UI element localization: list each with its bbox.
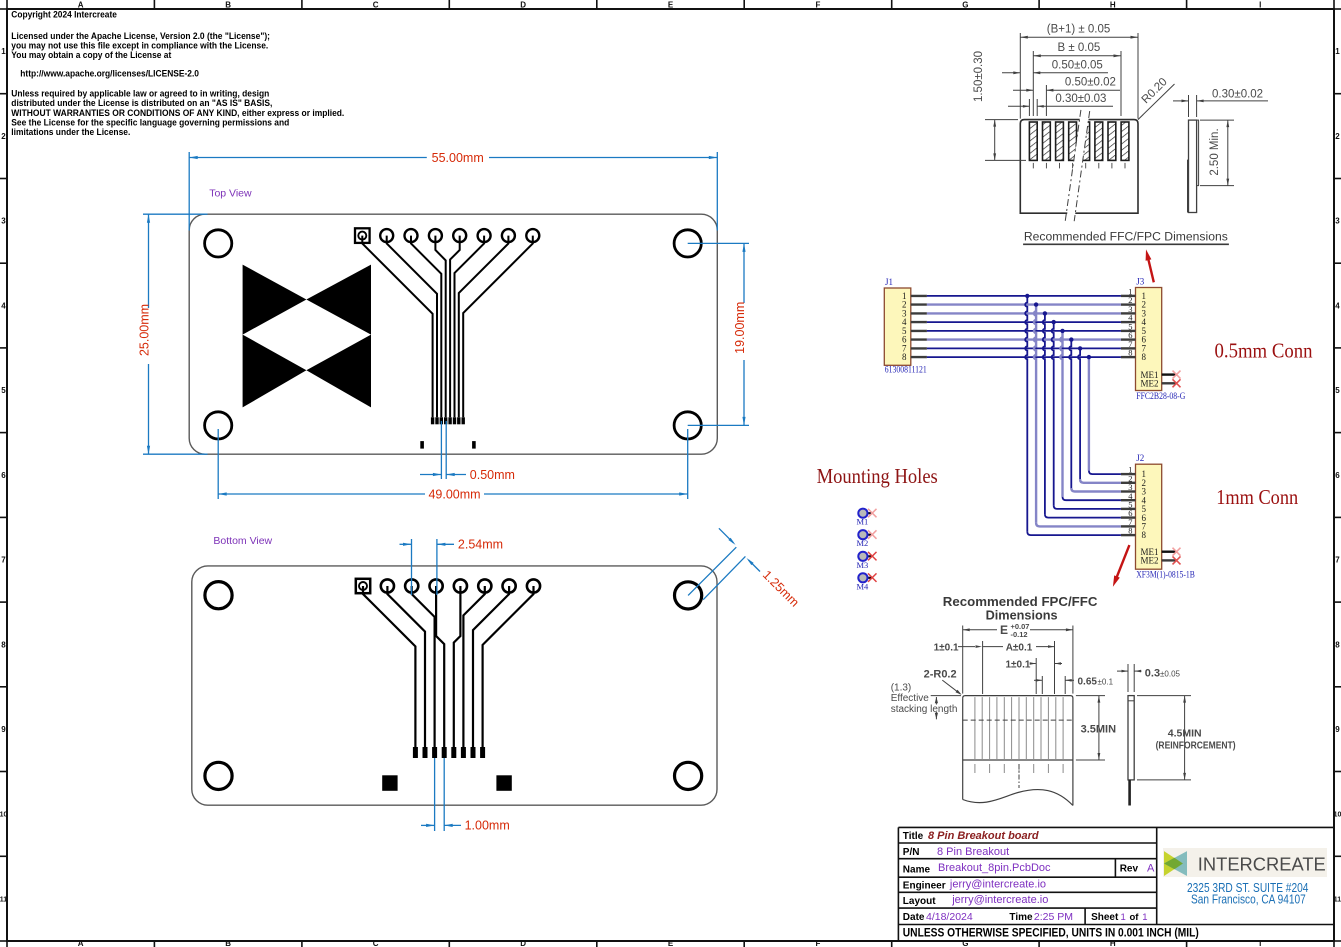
svg-text:H: H	[1110, 939, 1116, 947]
trace pad 3 bottom view	[412, 586, 435, 747]
center break dash line	[1018, 764, 1020, 788]
svg-text:M3: M3	[857, 560, 869, 570]
pin 6 J2	[1121, 508, 1147, 523]
svg-text:ME2: ME2	[1141, 556, 1159, 566]
svg-text:P/N: P/N	[903, 847, 920, 858]
svg-text:8: 8	[1335, 640, 1340, 649]
dimension 19.00mm	[688, 243, 749, 425]
svg-text:1mm Conn: 1mm Conn	[1216, 485, 1298, 509]
wire net6 J1.6 to J3.6	[927, 338, 1121, 340]
wire net5 vertical drop	[1060, 331, 1062, 497]
wire net8 J1.8 to J3.8	[927, 356, 1121, 358]
svg-text:0.50mm: 0.50mm	[470, 468, 515, 482]
wire to J2.5	[1054, 505, 1121, 509]
pad 4 top view	[429, 229, 442, 242]
FFC body front view	[1020, 120, 1138, 214]
svg-text:ME2: ME2	[1141, 379, 1159, 389]
pin 2 J3	[1121, 295, 1146, 310]
pin 1 J1	[902, 291, 927, 301]
svg-text:3.5MIN: 3.5MIN	[1081, 724, 1117, 736]
pin 7 J2	[1121, 517, 1147, 532]
pin 6 J3	[1121, 330, 1147, 345]
wire net4 vertical drop	[1052, 322, 1054, 505]
junction net3	[1043, 311, 1047, 315]
pin 4 J3	[1121, 313, 1147, 328]
svg-text:INTERCREATE: INTERCREATE	[1198, 854, 1326, 874]
pin 5 J1	[902, 326, 927, 336]
pad 2 bottom view	[381, 579, 394, 592]
pin 4 J1	[902, 317, 927, 327]
mounting hole bottom view top-right	[675, 582, 702, 609]
junction net4	[1052, 320, 1056, 324]
svg-text:10: 10	[1334, 812, 1341, 819]
svg-text:I: I	[1259, 1, 1261, 10]
dimension 0.50mm	[420, 421, 515, 482]
pin 6 J1	[902, 335, 927, 345]
svg-text:2-R0.2: 2-R0.2	[924, 669, 957, 681]
svg-text:Copyright 2024 Intercreate: Copyright 2024 Intercreate	[11, 10, 117, 20]
svg-text:Unless required by applicable: Unless required by applicable law or agr…	[11, 89, 269, 99]
pin 8 J3	[1121, 348, 1147, 363]
svg-text:2:25 PM: 2:25 PM	[1034, 911, 1073, 923]
trace pad 1 bottom view	[363, 586, 415, 747]
svg-text:8: 8	[1142, 530, 1147, 540]
svg-text:M1: M1	[857, 517, 869, 527]
svg-text:5: 5	[1335, 386, 1340, 395]
svg-text:Licensed under the Apache Lice: Licensed under the Apache License, Versi…	[11, 31, 270, 41]
wire to J2.2	[1080, 479, 1121, 483]
red arrow to FFC drawing	[1146, 249, 1154, 282]
svg-text:E: E	[1000, 623, 1008, 637]
pad 6 top view	[478, 229, 491, 242]
pin 3 J1	[902, 309, 927, 319]
svg-text:0.30±0.02: 0.30±0.02	[1212, 89, 1263, 101]
trace pad 6 bottom view	[463, 586, 484, 747]
svg-text:Recommended FPC/FFC: Recommended FPC/FFC	[943, 595, 1098, 609]
pin 8 J2	[1121, 526, 1147, 541]
svg-text:Title: Title	[903, 831, 924, 842]
no-connect X ME1 J3	[1173, 371, 1181, 379]
pad 5 bottom view	[454, 579, 467, 592]
svg-text:±0.05: ±0.05	[1160, 670, 1181, 679]
svg-text:Dimensions: Dimensions	[986, 609, 1058, 623]
svg-text:7: 7	[1, 556, 6, 565]
wire net7 J1.7 to J3.7	[927, 347, 1121, 349]
mounting hole bottom view bottom-left	[205, 762, 232, 789]
dimension 2.50 Min side	[1200, 120, 1234, 186]
svg-text:3: 3	[1335, 217, 1340, 226]
dimension R0.20 leader	[1138, 76, 1175, 120]
dimension (B+1) 0.05	[1020, 24, 1138, 119]
svg-text:http://www.apache.org/licenses: http://www.apache.org/licenses/LICENSE-2…	[20, 68, 199, 78]
junction net7	[1078, 346, 1082, 350]
FFC side view	[1188, 120, 1199, 212]
pad 7 top view	[502, 229, 515, 242]
dimension 4.5MIN reinforcement	[1137, 696, 1236, 780]
pin 2 J2	[1121, 473, 1146, 488]
svg-text:(B+1) ± 0.05: (B+1) ± 0.05	[1047, 24, 1111, 36]
svg-text:D: D	[520, 939, 526, 947]
svg-text:2: 2	[1, 132, 6, 141]
FPC body front view	[963, 696, 1073, 806]
svg-text:You may obtain a copy of the L: You may obtain a copy of the License at	[11, 50, 171, 60]
solder pad right bottom view	[496, 775, 511, 791]
copyright license text block	[11, 10, 344, 137]
pad 3 top view	[405, 229, 418, 242]
pin 7 J3	[1121, 339, 1147, 354]
svg-text:A: A	[78, 939, 84, 947]
PCB outline top view	[189, 214, 717, 454]
svg-text:Rev: Rev	[1120, 863, 1139, 874]
wire net3 J1.3 to J3.3	[927, 312, 1121, 314]
svg-text:San Francisco, CA 94107: San Francisco, CA 94107	[1191, 893, 1306, 907]
PCB outline bottom view	[192, 566, 717, 805]
FFC contact finger 1	[1029, 122, 1037, 160]
dimension 3.5MIN	[1076, 696, 1116, 760]
svg-text:0.65: 0.65	[1078, 676, 1098, 687]
svg-text:1: 1	[1142, 912, 1147, 923]
mounting hole bottom-right	[674, 412, 701, 439]
red arrow to FPC drawing below	[1113, 545, 1130, 587]
svg-text:Time: Time	[1009, 912, 1033, 923]
dimension 1.50 0.30 vertical	[973, 51, 1026, 160]
wire net5 J1.5 to J3.5	[927, 330, 1121, 332]
trace pad 2 bottom view	[387, 586, 425, 747]
svg-text:Recommended FFC/FPC Dimensions: Recommended FFC/FPC Dimensions	[1024, 231, 1228, 243]
svg-text:H: H	[1110, 1, 1116, 10]
svg-text:0.3: 0.3	[1145, 668, 1160, 680]
mounting hole M3 symbol	[857, 552, 872, 570]
svg-text:FFC2B28-08-G: FFC2B28-08-G	[1136, 391, 1185, 401]
svg-text:jerry@intercreate.io: jerry@intercreate.io	[951, 894, 1048, 906]
svg-text:-0.12: -0.12	[1011, 630, 1028, 639]
svg-text:Layout: Layout	[903, 896, 936, 907]
svg-text:0.50±0.02: 0.50±0.02	[1065, 77, 1116, 89]
svg-text:2.50 Min.: 2.50 Min.	[1209, 128, 1221, 175]
dimension 1 0.1 inner	[1006, 658, 1063, 694]
svg-text:C: C	[373, 939, 379, 947]
label 2-R0.2	[924, 669, 962, 695]
pad 1 square bottom view	[356, 579, 370, 593]
fiducial mark left top view	[420, 441, 424, 449]
junction net5	[1060, 329, 1064, 333]
svg-text:Date: Date	[903, 912, 925, 923]
wire net1 vertical drop	[1025, 296, 1027, 532]
pad 8 bottom view	[527, 579, 540, 592]
no-connect X M3	[868, 552, 877, 561]
svg-text:8: 8	[902, 352, 907, 362]
title block field Date Time Sheet	[903, 911, 1148, 923]
wire to J2.4	[1063, 497, 1121, 501]
dimension 25.00mm	[138, 214, 208, 454]
svg-text:2.54mm: 2.54mm	[458, 538, 503, 552]
no-connect X ME2 J2	[1173, 556, 1181, 564]
junction net1	[1025, 294, 1029, 298]
title block field Title	[903, 830, 1039, 842]
svg-text:Name: Name	[903, 864, 931, 875]
mounting hole bottom-left	[205, 412, 232, 439]
svg-text:8: 8	[1128, 348, 1132, 358]
no-connect X ME1 J2	[1173, 548, 1181, 556]
svg-text:4.5MIN: 4.5MIN	[1168, 728, 1202, 740]
no-connect X M2	[868, 530, 877, 539]
svg-text:9: 9	[1, 725, 6, 734]
FFC contact finger 5	[1082, 122, 1090, 160]
svg-text:F: F	[815, 939, 820, 947]
svg-text:G: G	[962, 939, 968, 947]
svg-text:8 Pin Breakout board: 8 Pin Breakout board	[928, 830, 1039, 842]
pad 5 top view	[453, 229, 466, 242]
svg-text:2: 2	[1335, 132, 1340, 141]
junction net2	[1034, 302, 1038, 306]
svg-text:D: D	[520, 1, 526, 10]
svg-text:limitations under the License.: limitations under the License.	[11, 127, 130, 137]
wire net4 J1.4 to J3.4	[927, 321, 1121, 323]
svg-text:G: G	[962, 1, 968, 10]
FFC contact finger 4	[1069, 122, 1077, 160]
svg-text:A: A	[78, 1, 84, 10]
no-connect X M4	[868, 573, 877, 582]
pin ME1 J2	[1141, 547, 1177, 557]
svg-text:stacking length: stacking length	[891, 704, 958, 715]
svg-text:E: E	[668, 1, 674, 10]
mounting hole M2 symbol	[857, 530, 872, 548]
svg-text:8: 8	[1128, 526, 1132, 536]
svg-text:M4: M4	[857, 581, 870, 591]
company address	[1187, 881, 1308, 907]
pad 1 square top view	[355, 228, 370, 243]
mounting hole top-left	[205, 230, 232, 257]
pin 5 J3	[1121, 322, 1147, 337]
svg-text:B ± 0.05: B ± 0.05	[1058, 42, 1101, 54]
label effective stacking length	[891, 683, 961, 720]
FFC contact finger 6	[1095, 122, 1103, 160]
FFC contact finger 7	[1108, 122, 1116, 160]
FPC conductors	[975, 697, 1063, 773]
connector J2	[1136, 453, 1195, 580]
break band	[1066, 110, 1090, 222]
svg-text:4: 4	[1335, 301, 1340, 310]
Intercreate logo	[1163, 848, 1327, 877]
pin ME2 J2	[1141, 556, 1177, 566]
dimension E	[963, 622, 1073, 694]
svg-text:J1: J1	[885, 277, 893, 287]
svg-text:of: of	[1130, 912, 1140, 923]
svg-text:0.30±0.03: 0.30±0.03	[1055, 93, 1106, 105]
svg-text:J3: J3	[1136, 276, 1145, 286]
svg-text:1.00mm: 1.00mm	[465, 819, 510, 833]
svg-text:1.50±0.30: 1.50±0.30	[973, 51, 985, 102]
svg-text:A±0.1: A±0.1	[1006, 643, 1033, 654]
svg-text:61300811121: 61300811121	[885, 365, 927, 375]
effective stacking dashed line	[963, 719, 1073, 721]
trace pad 2 top view	[387, 236, 437, 418]
pad 8 top view	[526, 229, 539, 242]
mounting hole bottom view bottom-right	[675, 762, 702, 789]
pin 3 J3	[1121, 304, 1147, 319]
svg-text:49.00mm: 49.00mm	[428, 487, 480, 501]
mounting hole M1 symbol	[857, 509, 872, 527]
svg-text:B: B	[225, 1, 231, 10]
wire net7 vertical drop	[1078, 348, 1080, 479]
svg-text:F: F	[815, 1, 820, 10]
wire net6 vertical drop	[1069, 340, 1071, 488]
mounting hole bottom view top-left	[205, 582, 232, 609]
svg-text:±0.1: ±0.1	[1098, 677, 1114, 686]
dimension 1.25mm radius	[688, 528, 802, 609]
svg-text:11: 11	[0, 896, 7, 903]
svg-text:Mounting Holes: Mounting Holes	[817, 464, 938, 488]
pin 5 J2	[1121, 500, 1147, 515]
svg-text:5: 5	[1, 386, 6, 395]
fiducial mark right top view	[472, 441, 476, 449]
svg-text:B: B	[225, 939, 231, 947]
no-connect X ME2 J3	[1173, 379, 1181, 387]
dimension 0.50 0.02	[1013, 77, 1120, 116]
svg-text:(REINFORCEMENT): (REINFORCEMENT)	[1156, 740, 1236, 751]
title Recommended FPC/FFC Dimensions	[943, 595, 1098, 623]
mounting hole top-right	[674, 230, 701, 257]
title Recommended FFC/FPC Dimensions	[1023, 231, 1229, 244]
svg-text:XF3M(1)-0815-1B: XF3M(1)-0815-1B	[1136, 570, 1195, 580]
svg-text:M2: M2	[857, 538, 869, 548]
pin 1 J3	[1121, 287, 1146, 302]
svg-text:25.00mm: 25.00mm	[138, 304, 152, 356]
trace pad 7 top view	[459, 236, 509, 418]
svg-text:Bottom View: Bottom View	[213, 535, 272, 547]
title block field Layout	[903, 894, 1049, 907]
svg-text:you may not use this file exce: you may not use this file except in comp…	[11, 40, 268, 50]
svg-text:11: 11	[1334, 896, 1341, 903]
solder pad left bottom view	[382, 775, 397, 791]
svg-text:8 Pin Breakout: 8 Pin Breakout	[937, 846, 1009, 858]
dimension 0.50 0.05 pitch	[1002, 59, 1108, 74]
pad 7 bottom view	[503, 579, 516, 592]
svg-text:J2: J2	[1136, 453, 1144, 463]
svg-text:C: C	[373, 1, 379, 10]
pin 8 J1	[902, 352, 927, 362]
pin 4 J2	[1121, 491, 1147, 506]
svg-text:6: 6	[1335, 471, 1340, 480]
dimension 1.00mm	[421, 758, 510, 833]
pin 7 J1	[902, 344, 927, 354]
wire net8 vertical drop	[1088, 357, 1090, 471]
pad 4 bottom view	[430, 579, 443, 592]
trace pad 6 top view	[455, 236, 485, 418]
title block field Name	[903, 862, 1155, 876]
svg-text:A: A	[1147, 862, 1155, 874]
svg-text:Sheet: Sheet	[1091, 912, 1119, 923]
svg-text:E: E	[668, 939, 674, 947]
svg-text:jerry@intercreate.io: jerry@intercreate.io	[949, 879, 1046, 891]
svg-text:7: 7	[1335, 556, 1340, 565]
svg-text:19.00mm: 19.00mm	[733, 302, 747, 354]
svg-text:See the License for the specif: See the License for the specific languag…	[11, 117, 289, 127]
svg-text:6: 6	[1, 471, 6, 480]
trace pad 1 top view	[362, 236, 432, 418]
svg-text:55.00mm: 55.00mm	[432, 151, 484, 165]
pin ME1 J3	[1141, 370, 1177, 380]
svg-text:UNLESS OTHERWISE SPECIFIED, UN: UNLESS OTHERWISE SPECIFIED, UNITS IN 0.0…	[903, 928, 1199, 940]
FFC contact finger 2	[1043, 122, 1051, 160]
dimension 0.30 0.03 finger width	[1008, 93, 1113, 116]
wire to J2.6	[1045, 514, 1121, 518]
svg-text:Top View: Top View	[209, 187, 252, 199]
junction net6	[1069, 337, 1073, 341]
wire to J2.8	[1027, 532, 1121, 536]
pad 6 bottom view	[478, 579, 491, 592]
pad 3 bottom view	[405, 579, 418, 592]
trace pad 8 bottom view	[483, 586, 534, 747]
svg-text:WITHOUT WARRANTIES OR CONDITIO: WITHOUT WARRANTIES OR CONDITIONS OF ANY …	[11, 108, 344, 118]
connector J3	[1136, 276, 1186, 401]
connector J1	[884, 277, 927, 375]
silkscreen logo bowtie	[243, 265, 371, 408]
svg-text:I: I	[1259, 939, 1261, 947]
wire to J2.7	[1036, 523, 1121, 527]
mounting hole M4 symbol	[857, 573, 872, 591]
svg-text:(1.3): (1.3)	[891, 683, 912, 694]
dimension 49.00mm	[218, 429, 688, 501]
svg-text:1±0.1: 1±0.1	[934, 643, 959, 654]
dimension A 0.1	[934, 641, 1055, 694]
pin 2 J1	[902, 300, 927, 310]
trace pad 4 top view	[435, 236, 445, 418]
title block table	[898, 827, 1334, 940]
svg-text:0.5mm Conn: 0.5mm Conn	[1215, 339, 1313, 363]
dimension B 0.05	[1033, 42, 1121, 116]
dimension 55.00mm	[189, 151, 717, 231]
svg-text:0.50±0.05: 0.50±0.05	[1052, 59, 1103, 71]
svg-text:4: 4	[1, 301, 6, 310]
pad 2 top view	[380, 229, 393, 242]
svg-text:10: 10	[0, 812, 7, 819]
wire net3 vertical drop	[1043, 313, 1045, 514]
dimension 0.65 0.1	[1034, 676, 1114, 694]
pin ME2 J3	[1141, 379, 1177, 389]
svg-text:1: 1	[1121, 912, 1126, 923]
trace pad 4 bottom view	[436, 586, 444, 747]
trace pad 5 bottom view	[454, 586, 461, 747]
wire net1 J1.1 to J3.1	[927, 295, 1121, 297]
pin 3 J2	[1121, 482, 1147, 497]
svg-text:3: 3	[1, 217, 6, 226]
wire net2 J1.2 to J3.2	[927, 303, 1121, 305]
svg-text:8: 8	[1142, 352, 1147, 362]
wire net2 vertical drop	[1034, 305, 1036, 523]
svg-text:distributed under the License: distributed under the License is distrib…	[11, 98, 272, 108]
trace pad 3 top view	[411, 236, 441, 418]
svg-text:9: 9	[1335, 725, 1340, 734]
FPC side view	[1128, 696, 1134, 806]
trace pad 8 top view	[463, 236, 533, 418]
no-connect X M1	[868, 509, 877, 518]
pin 1 J2	[1121, 465, 1146, 480]
dimension 2.54mm	[400, 538, 504, 595]
dimension 0.30 0.02 side	[1173, 89, 1268, 118]
svg-text:4/18/2024: 4/18/2024	[926, 911, 973, 923]
svg-text:Engineer: Engineer	[903, 880, 946, 891]
title block field Engineer	[903, 879, 1046, 892]
svg-text:1±0.1: 1±0.1	[1006, 659, 1031, 670]
svg-text:Effective: Effective	[891, 693, 930, 704]
svg-text:1: 1	[1335, 47, 1340, 56]
svg-text:1: 1	[1, 47, 6, 56]
FFC contact finger 8	[1121, 122, 1129, 160]
trace pad 5 top view	[450, 236, 460, 418]
svg-text:Breakout_8pin.PcbDoc: Breakout_8pin.PcbDoc	[938, 862, 1051, 874]
title block field P/N	[903, 846, 1009, 858]
